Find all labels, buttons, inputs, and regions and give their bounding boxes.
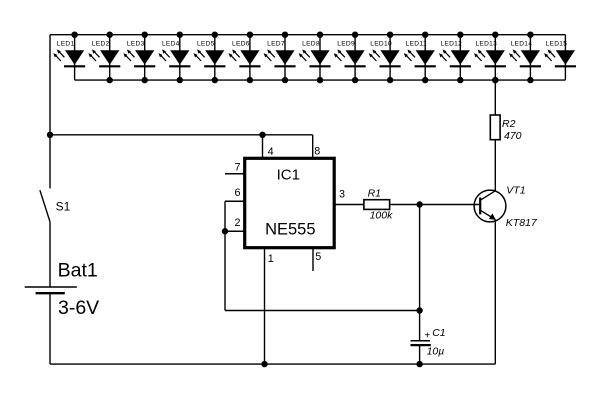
transistor VT1 KT817 xyxy=(474,185,538,229)
svg-text:LED15: LED15 xyxy=(546,41,568,48)
resistor R1 xyxy=(364,187,393,221)
svg-text:LED1: LED1 xyxy=(57,41,75,48)
wire: feedback run to C1 top node xyxy=(225,310,420,312)
LED LED3 xyxy=(123,32,155,84)
LED LED5 xyxy=(194,32,226,84)
wire: battery negative down to bottom-left corner xyxy=(49,293,51,364)
wire: LED rail down to R2 xyxy=(494,80,496,115)
LED LED12 xyxy=(439,32,471,84)
LED LED8 xyxy=(299,32,331,84)
svg-text:IC1: IC1 xyxy=(277,167,300,184)
node: feedback run joins C1 wire xyxy=(416,307,422,313)
svg-text:LED13: LED13 xyxy=(475,41,497,48)
svg-text:1: 1 xyxy=(268,253,274,265)
pin 7 stub wire xyxy=(225,173,245,175)
wire: pin 8 riser xyxy=(312,135,314,159)
svg-text:LED6: LED6 xyxy=(232,41,250,48)
svg-text:LED7: LED7 xyxy=(267,41,285,48)
wire: switch to battery positive xyxy=(49,222,51,287)
node: C1 / ground rail xyxy=(416,361,422,367)
svg-text:5: 5 xyxy=(315,251,321,263)
wire: R1 to base node xyxy=(390,204,481,206)
LED LED9 xyxy=(334,32,366,84)
svg-text:+: + xyxy=(424,330,430,341)
wire: pin6-pin2 tie running down xyxy=(224,201,226,310)
wire: emitter down to ground rail corner xyxy=(494,220,496,365)
switch S1 xyxy=(40,190,71,222)
pin 5 stub wire xyxy=(312,248,314,271)
svg-text:LED4: LED4 xyxy=(162,41,180,48)
svg-text:S1: S1 xyxy=(56,199,71,213)
wire: pin 4 riser xyxy=(262,135,264,159)
resistor R2 xyxy=(490,115,521,142)
node: LED rail / R2 junction xyxy=(492,77,498,83)
svg-text:Bat1: Bat1 xyxy=(58,259,98,281)
node: R1 / base / C1 junction xyxy=(416,201,422,207)
pin 6 wire xyxy=(225,200,245,202)
LED LED4 xyxy=(159,32,191,84)
op-amp / timer IC1 NE555 body xyxy=(245,158,335,247)
svg-text:LED10: LED10 xyxy=(370,41,392,48)
LED LED10 xyxy=(369,32,401,84)
wire: left rail, top corner down to switch S1 xyxy=(49,35,51,189)
svg-text:LED5: LED5 xyxy=(197,41,215,48)
svg-text:470: 470 xyxy=(504,130,522,142)
LED LED11 xyxy=(404,32,436,84)
svg-text:LED2: LED2 xyxy=(92,41,110,48)
svg-text:3: 3 xyxy=(339,189,345,201)
svg-text:8: 8 xyxy=(314,145,320,157)
pin 2 wire xyxy=(225,230,245,232)
svg-text:100k: 100k xyxy=(370,210,394,222)
capacitor C1 xyxy=(411,327,446,358)
LED LED2 xyxy=(88,32,120,84)
svg-text:LED14: LED14 xyxy=(511,41,533,48)
svg-text:LED8: LED8 xyxy=(302,41,320,48)
wire: pin 1 to ground rail xyxy=(264,248,266,364)
svg-text:6: 6 xyxy=(234,187,240,199)
wire: R2 to collector xyxy=(494,140,496,191)
LED LED14 xyxy=(509,32,541,84)
wire: supply branch to IC pins 4 and 8 xyxy=(50,134,313,136)
LED LED13 xyxy=(474,32,506,84)
wire: base node down to C1 xyxy=(419,205,421,341)
LED LED7 xyxy=(264,32,296,84)
svg-text:VT1: VT1 xyxy=(506,185,525,197)
svg-text:LED11: LED11 xyxy=(406,41,427,48)
svg-text:C1: C1 xyxy=(432,327,445,339)
svg-text:2: 2 xyxy=(234,217,240,229)
svg-text:3-6V: 3-6V xyxy=(58,297,99,319)
svg-text:10µ: 10µ xyxy=(427,345,445,357)
svg-text:4: 4 xyxy=(268,146,274,158)
LED LED15 xyxy=(544,35,576,80)
LED LED1 xyxy=(53,32,85,81)
wire: top supply rail xyxy=(50,34,565,36)
pin 3 wire to R1 xyxy=(334,204,364,206)
wire: C1 to ground rail xyxy=(419,345,421,364)
svg-text:R2: R2 xyxy=(502,118,516,130)
LED LED6 xyxy=(229,32,261,84)
svg-text:KT817: KT817 xyxy=(506,217,538,229)
svg-text:NE555: NE555 xyxy=(265,221,315,239)
svg-text:LED9: LED9 xyxy=(337,41,355,48)
battery Bat1 xyxy=(25,259,100,319)
wire: bottom ground rail xyxy=(50,363,495,365)
svg-text:LED3: LED3 xyxy=(127,41,145,48)
node: left rail / supply branch junction xyxy=(47,132,53,138)
node: pin 2 junction on tie xyxy=(222,228,228,234)
svg-text:7: 7 xyxy=(234,161,240,173)
svg-text:R1: R1 xyxy=(368,187,381,199)
wire: LED cathode bottom rail xyxy=(75,79,566,81)
node: pin4/pin8 supply junction xyxy=(259,132,265,138)
node: pin 1 / ground rail xyxy=(261,361,267,367)
svg-text:LED12: LED12 xyxy=(440,41,462,48)
